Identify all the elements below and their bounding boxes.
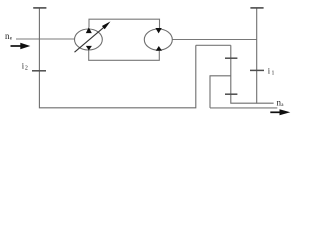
gear tick C lower [225,93,237,95]
svg-text:i2: i2 [22,61,28,72]
pump P1 bottom triangle [86,46,92,51]
motor M1 bottom triangle [156,46,162,51]
pump P1 variable displacement arrow [75,21,111,52]
gear tick on S2 (ratio i1) [250,69,264,71]
motor M1 (fixed displacement) [144,29,172,50]
svg-text:na: na [277,97,285,107]
shaft B vertical with top link to C [210,76,231,108]
motor M1 top triangle [155,28,161,33]
wire: motor output line [172,39,256,41]
wire: output line from B [210,107,277,109]
wire: top hydraulic line pump->motor [89,19,160,28]
svg-text:i1: i1 [268,65,275,76]
shaft S2 T-cap [250,7,263,9]
gear tick C upper [225,57,237,59]
gear tick G2 (ratio i2) on S1 [32,70,46,72]
pump P1 top triangle [86,27,92,33]
wire: input line n_e [16,38,75,40]
shaft S1 (input shaft, left vertical) [39,8,195,108]
countershaft C with bottom lead to free end [231,45,274,103]
arrow output n_a [270,109,290,115]
shaft S2 (right vertical to gear i1) [256,8,258,104]
svg-text:ne: ne [5,31,13,42]
shaft S1 T-cap [33,7,46,9]
pump P1 (variable displacement) [75,29,103,50]
arrow input n_e [11,43,31,49]
wire: bottom hydraulic line pump->motor [89,50,160,60]
wire: top link A->C [196,44,231,46]
